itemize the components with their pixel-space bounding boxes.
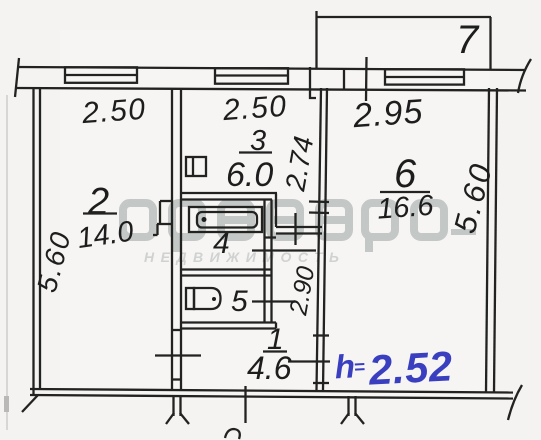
room2 door tick [155, 354, 201, 356]
band crossing tick [365, 57, 368, 101]
room 3 bar [239, 151, 272, 153]
room2 niche [153, 201, 172, 235]
watermark big glyph v [270, 203, 300, 237]
watermark big glyph e2 [319, 203, 349, 237]
top band left end tick [15, 58, 19, 97]
pointer room5 [252, 300, 295, 302]
watermark big glyph a1 [123, 203, 153, 237]
rung y335 [313, 334, 329, 336]
bath/toilet wall [181, 270, 272, 276]
corridor wall [276, 227, 322, 234]
svg-text:7: 7 [456, 18, 480, 62]
kitchen/bath wall [181, 193, 277, 200]
top wall band bottom line [17, 88, 526, 91]
window W1 [65, 67, 137, 83]
svg-text:6: 6 [394, 152, 417, 196]
window W2 [215, 68, 288, 84]
rung y383 [313, 382, 329, 384]
band vertical at balcony door [309, 67, 311, 89]
L-hook below band [310, 89, 316, 98]
svg-text:5: 5 [231, 285, 248, 318]
svg-text:4.6: 4.6 [247, 350, 292, 386]
left outer wall [34, 88, 41, 396]
watermark underscore [451, 229, 476, 235]
svg-text:6.0: 6.0 [226, 156, 273, 194]
top wall band top line [17, 67, 526, 70]
bathtub [189, 207, 262, 232]
watermark big glyph r2 [365, 203, 395, 252]
bottom-left corner hook [22, 395, 38, 412]
rung y330 [172, 329, 181, 331]
rung y212 [309, 211, 329, 214]
watermark big glyph r1 [172, 203, 202, 252]
balcony left wall [315, 11, 317, 68]
svg-text:2.52: 2.52 [367, 342, 454, 393]
svg-text:2.95: 2.95 [351, 92, 425, 135]
bottom wall [30, 389, 513, 399]
blue note h=2.52 [334, 342, 454, 395]
balcony right wall [489, 17, 491, 69]
room 2 bar [83, 212, 117, 214]
room 1 bar [263, 350, 287, 352]
svg-text:16.6: 16.6 [376, 190, 435, 226]
band vertical divider [343, 68, 345, 90]
toilet room bottom wall [181, 323, 276, 329]
bottom wall tick [244, 386, 246, 423]
wall middle/room6 [317, 88, 328, 390]
scan edge streak left [6, 95, 8, 430]
watermark big glyph a2 [414, 203, 444, 237]
svg-text:=: = [353, 357, 365, 379]
balcony top [316, 16, 491, 18]
watermark big glyph e1 [221, 203, 251, 237]
svg-text:2: 2 [87, 181, 109, 223]
bottom stub B [341, 396, 364, 424]
bottom partial digit [225, 429, 240, 439]
svg-text:2.50: 2.50 [80, 93, 148, 130]
pointer room1 [288, 360, 330, 362]
bottom wall right hook [508, 385, 522, 420]
kitchen vent box [186, 157, 206, 176]
svg-text:h: h [334, 347, 356, 385]
pointer room4 [252, 249, 316, 251]
svg-text:4: 4 [213, 227, 230, 260]
bath block right wall [265, 200, 272, 323]
window W3 [385, 69, 464, 84]
corridor tick [294, 213, 296, 245]
rung y201 [309, 200, 329, 203]
wall room2/middle [172, 88, 181, 390]
rung y379 [172, 378, 181, 380]
right outer wall [486, 88, 497, 392]
corridor jog vertical [275, 194, 277, 228]
room 6 bar [380, 191, 430, 193]
bottom stub A [166, 396, 189, 424]
toilet [186, 288, 221, 309]
bath door stub [265, 236, 276, 238]
svg-text:2.50: 2.50 [221, 90, 289, 127]
top band right end hook [518, 59, 531, 93]
